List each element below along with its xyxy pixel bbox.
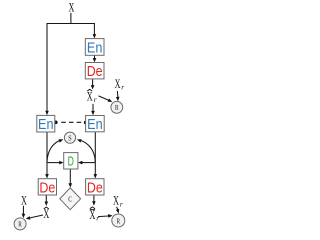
svg-text:S: S bbox=[68, 133, 71, 142]
svg-text:R: R bbox=[115, 103, 119, 112]
svg-text:En: En bbox=[87, 116, 103, 133]
svg-text:En: En bbox=[87, 39, 103, 56]
svg-text:De: De bbox=[87, 63, 103, 80]
svg-text:r: r bbox=[120, 199, 123, 208]
svg-text:R: R bbox=[18, 220, 22, 229]
svg-text:X: X bbox=[68, 0, 74, 15]
svg-text:X: X bbox=[113, 193, 119, 208]
svg-text:r: r bbox=[96, 213, 99, 222]
svg-text:En: En bbox=[38, 116, 54, 133]
svg-text:r: r bbox=[94, 95, 97, 104]
svg-text:De: De bbox=[87, 179, 103, 196]
svg-text:X: X bbox=[21, 192, 27, 207]
svg-text:De: De bbox=[39, 179, 55, 196]
svg-text:C: C bbox=[68, 195, 72, 204]
svg-text:R: R bbox=[117, 216, 121, 225]
svg-text:r: r bbox=[121, 83, 124, 92]
svg-text:X: X bbox=[115, 76, 121, 91]
svg-text:D: D bbox=[68, 154, 74, 169]
